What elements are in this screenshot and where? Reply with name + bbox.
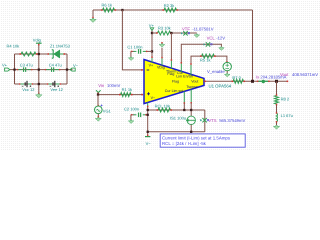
resistor R2: [164, 8, 177, 12]
node junction pin4 bottom: [183, 109, 185, 111]
svg-text:V_enable: V_enable: [207, 69, 225, 74]
svg-text:-12V: -12V: [216, 36, 225, 41]
node junction R3 tap: [151, 32, 153, 34]
op-amp U1 OPA564 body: [144, 60, 204, 104]
resistor R7: [233, 79, 244, 83]
wire VTS vertical: [204, 110, 206, 132]
node junction bottom-center: [38, 83, 40, 85]
op-amp top pin stub Cur Lim: [180, 63, 182, 73]
wire non-inverting input: [98, 94, 143, 96]
wire R5 horizontal: [191, 56, 227, 64]
capacitor C2: [131, 114, 134, 116]
op-amp bottom pin stub Cur Lim set: [183, 92, 185, 104]
wire right vertical left block: [66, 54, 68, 84]
svg-text:100mV: 100mV: [107, 83, 120, 88]
marker viewpoint VTS: [202, 118, 206, 122]
svg-text:R1 1k: R1 1k: [122, 87, 132, 92]
wire IS1 bottom: [190, 125, 192, 132]
wire top rail left block: [15, 53, 68, 55]
wire VCL horizontal: [181, 44, 221, 62]
resistor RCL: [158, 108, 171, 112]
svg-text:R7 0: R7 0: [232, 75, 241, 80]
ammeter Ix element: [258, 80, 269, 82]
wire pin5 to IS1: [190, 103, 192, 116]
node junction top at x122: [121, 9, 123, 11]
port V+ left: [5, 68, 10, 71]
ground under C1: [130, 51, 132, 57]
svg-text:Flag: Flag: [167, 72, 174, 76]
svg-text:V+: V+: [149, 23, 155, 28]
svg-text:Vout: Vout: [280, 72, 289, 77]
ground under C2: [130, 115, 132, 120]
svg-text:C4 47u: C4 47u: [49, 63, 62, 68]
svg-text:565.37549mV: 565.37549mV: [219, 118, 245, 123]
op-amp bottom pin stub V-: [147, 103, 149, 106]
diode Z1 zener: [49, 53, 53, 55]
op-amp top pin stub VDig: [161, 58, 163, 66]
svg-text:VDig: VDig: [157, 66, 165, 70]
svg-text:Current limit (I-Lim) set at 1: Current limit (I-Lim) set at 1.5Amps: [162, 135, 231, 140]
power symbol V- bottom: [145, 136, 150, 138]
op-amp top pin stub V+: [151, 57, 153, 62]
svg-text:C3 47u: C3 47u: [20, 63, 33, 68]
svg-text:408.56371mV: 408.56371mV: [292, 72, 318, 77]
svg-text:V−: V−: [73, 63, 79, 68]
capacitor C4: [45, 69, 50, 71]
svg-text:C2 100n: C2 100n: [124, 106, 139, 111]
wire left vertical left block: [14, 54, 16, 84]
port V- right: [70, 68, 75, 71]
svg-text:Vdig: Vdig: [33, 38, 41, 43]
ground at VTF wire end: [194, 34, 200, 37]
node junction top center: [38, 53, 40, 55]
wire bottom return: [148, 131, 205, 133]
inductor L1: [276, 113, 279, 121]
svg-text:R5 1k: R5 1k: [200, 57, 210, 62]
ground under VG1: [97, 114, 99, 118]
svg-text:VTS: VTS: [208, 118, 216, 123]
source V_enable: [226, 61, 228, 63]
node junction pin3 tap: [170, 32, 172, 34]
svg-text:Tsense: Tsense: [186, 85, 197, 89]
wire pin3 vertical: [170, 33, 172, 60]
svg-text:IS1 100u: IS1 100u: [170, 116, 186, 121]
wire ground to pin2: [161, 48, 163, 58]
wire top horizontal: [93, 9, 253, 11]
wire RCL to pin4: [183, 103, 185, 110]
node junction mid-right: [66, 68, 68, 70]
ground above op-amp pin 2: [161, 42, 163, 44]
svg-text:R2 3k: R2 3k: [164, 3, 174, 8]
marker viewpoint VCL: [206, 42, 210, 46]
capacitor C3: [17, 69, 22, 71]
svg-text:Vin: Vin: [98, 83, 105, 88]
svg-text:RCL = [24k / I-Lim] -5k: RCL = [24k / I-Lim] -5k: [162, 141, 207, 146]
node junction output x252.5: [251, 80, 254, 83]
svg-text:VCL: VCL: [207, 36, 216, 41]
wire bottom rail left block: [15, 83, 68, 85]
node junction Vin: [97, 93, 99, 95]
wire RCL horizontal: [148, 109, 205, 111]
node junction RCL left: [147, 109, 149, 111]
wire R3 to VTF marker: [171, 32, 197, 34]
svg-text:L1 67u: L1 67u: [281, 113, 293, 118]
svg-text:Z1 1N4753: Z1 1N4753: [50, 44, 71, 49]
svg-text:R6 1k: R6 1k: [102, 2, 112, 7]
resistor R8: [275, 96, 279, 104]
svg-text:Vee 12: Vee 12: [50, 87, 63, 92]
wire vertical from top wire down to output node: [252, 10, 254, 81]
op-amp top pin stub En/Sh: [190, 64, 192, 75]
source Vee: [48, 83, 52, 85]
wire V+ vertical: [151, 31, 153, 57]
svg-text:V+: V+: [149, 64, 154, 68]
svg-text:V−: V−: [146, 141, 152, 146]
wire mid rail left block: [10, 69, 73, 71]
ground right of VCL: [219, 47, 225, 50]
svg-text:RCL 10k: RCL 10k: [155, 104, 170, 109]
resistor R6: [103, 8, 115, 12]
svg-text:VG1: VG1: [103, 108, 112, 113]
node junction IS1 top: [190, 109, 192, 111]
wire center vertical left block: [38, 44, 40, 94]
svg-text:VTF: VTF: [182, 26, 190, 31]
svg-text:V−: V−: [151, 96, 156, 100]
wire Vin node to VG1: [97, 95, 99, 106]
resistor R5: [202, 54, 215, 58]
ground under load: [273, 125, 279, 129]
wire V- vertical below op-amp: [147, 106, 149, 136]
marker viewpoint Vin: [96, 90, 101, 92]
op-amp top pin stub Therm/Flag: [170, 60, 172, 69]
svg-text:R8 2: R8 2: [281, 96, 290, 101]
svg-text:Flag: Flag: [172, 79, 179, 83]
wire load vertical: [276, 81, 278, 125]
power symbol Vdig: [36, 42, 42, 44]
node junction output x276.5: [275, 80, 278, 83]
op-amp inverting input minus sign: [147, 69, 150, 71]
svg-text:V+: V+: [2, 63, 8, 68]
op-amp non-inverting plus sign: [147, 92, 150, 95]
node junction C2 on V- wire: [147, 114, 149, 116]
svg-text:R3 10k: R3 10k: [158, 25, 171, 30]
svg-text:Vout: Vout: [191, 79, 198, 83]
resistor R1: [121, 93, 132, 97]
svg-text:R4 10k: R4 10k: [7, 44, 20, 49]
resistor R3: [152, 32, 157, 34]
node junction mid-center: [38, 68, 40, 70]
svg-text:Cur Lim set: Cur Lim set: [165, 89, 183, 93]
node junction C1 tap: [151, 50, 153, 52]
ground top-left: [92, 10, 94, 18]
source VG1 sine: [97, 105, 99, 107]
resistor R4: [21, 52, 36, 56]
annotation text box: [160, 134, 245, 147]
marker viewpoint VTF: [183, 31, 187, 35]
op-amp interior pin labels: [149, 64, 199, 100]
ground left block: [38, 93, 40, 95]
wire output horizontal: [204, 80, 288, 82]
ground under V_enable: [226, 71, 228, 74]
wire vertical from top to inverting input: [122, 10, 143, 70]
node junction mid-left: [13, 68, 15, 70]
svg-text:-11.87581V: -11.87581V: [192, 26, 214, 31]
svg-text:Vcc 12: Vcc 12: [22, 87, 35, 92]
svg-text:Lim En/Sh: Lim En/Sh: [176, 74, 193, 78]
svg-text:C1 100n: C1 100n: [127, 44, 142, 49]
op-amp bottom pin stub Tsense: [190, 90, 192, 104]
svg-text:U1 OPA564: U1 OPA564: [209, 84, 232, 89]
source Vcc: [20, 83, 24, 85]
current source IS1: [187, 116, 195, 124]
capacitor C1: [131, 50, 134, 52]
